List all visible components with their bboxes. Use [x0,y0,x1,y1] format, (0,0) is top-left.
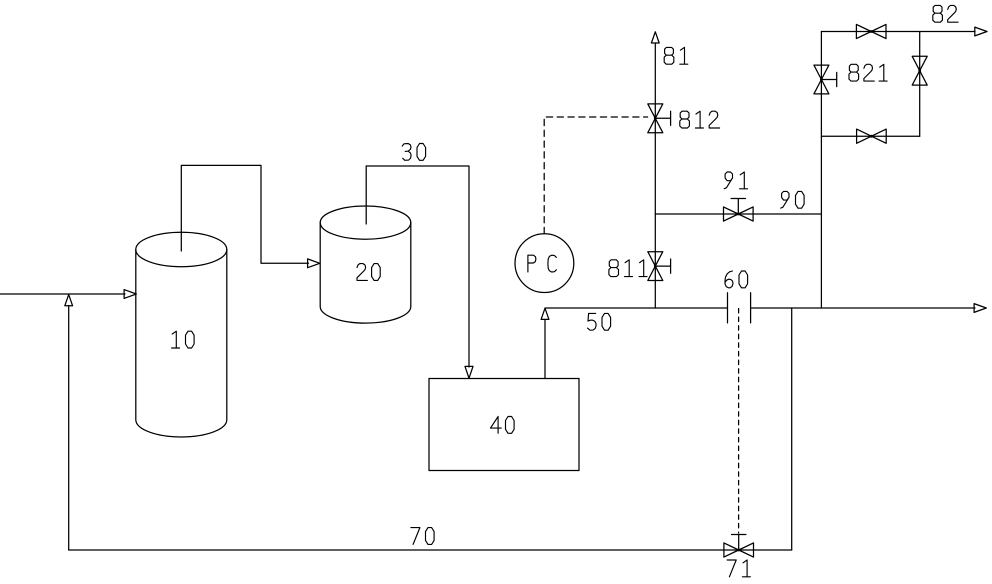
label 30 [402,144,425,161]
valve on right vertical [912,56,927,85]
valve 811 [648,252,671,281]
valve 821 [814,65,837,94]
label 90 [781,191,804,208]
label PC [528,255,557,272]
unit 40 [429,379,579,471]
valve on bypass bottom [857,129,887,143]
valve 812 [648,104,671,133]
vent line 81 vertical [651,32,659,308]
restriction orifice 60 [728,293,751,323]
valve 91 [724,199,754,222]
label 50 [588,313,611,330]
riser from unit 40 to line 50 [541,308,549,378]
bypass left vertical line [820,32,822,309]
label 811 [609,260,647,277]
vessel 20 [320,206,411,323]
bypass bottom line [821,135,919,137]
valve 71 [724,535,754,558]
line 82 top with arrow [821,27,987,36]
label 70 [411,528,434,545]
control signal dashed line PC to valve 812 [544,117,647,234]
label 82 [933,5,958,22]
valve on line 82 [856,24,886,38]
label 91 [724,172,747,189]
vessel 10 [136,232,227,437]
riser from line 70 to line 50 [791,308,793,550]
label 71 [727,560,750,577]
recycle line 70 [69,549,792,551]
label 812 [680,111,720,128]
wire 30 from vessel 20 to unit 40 [366,166,473,378]
label 40 [491,417,515,434]
wire vessel 10 top to vessel 20 [181,165,319,267]
recycle return vertical with arrow [65,295,73,550]
feed line into vessel 10 [0,290,136,299]
label 821 [849,64,887,81]
label 60 [725,271,748,288]
dashed line orifice 60 to valve 71 [738,309,740,534]
pressure controller PC [515,234,574,293]
bypass right vertical line [919,32,921,137]
line 90 [655,213,821,215]
line 50 [545,304,986,313]
label 20 [357,264,380,281]
label 81 [664,47,688,64]
label 10 [172,331,195,348]
